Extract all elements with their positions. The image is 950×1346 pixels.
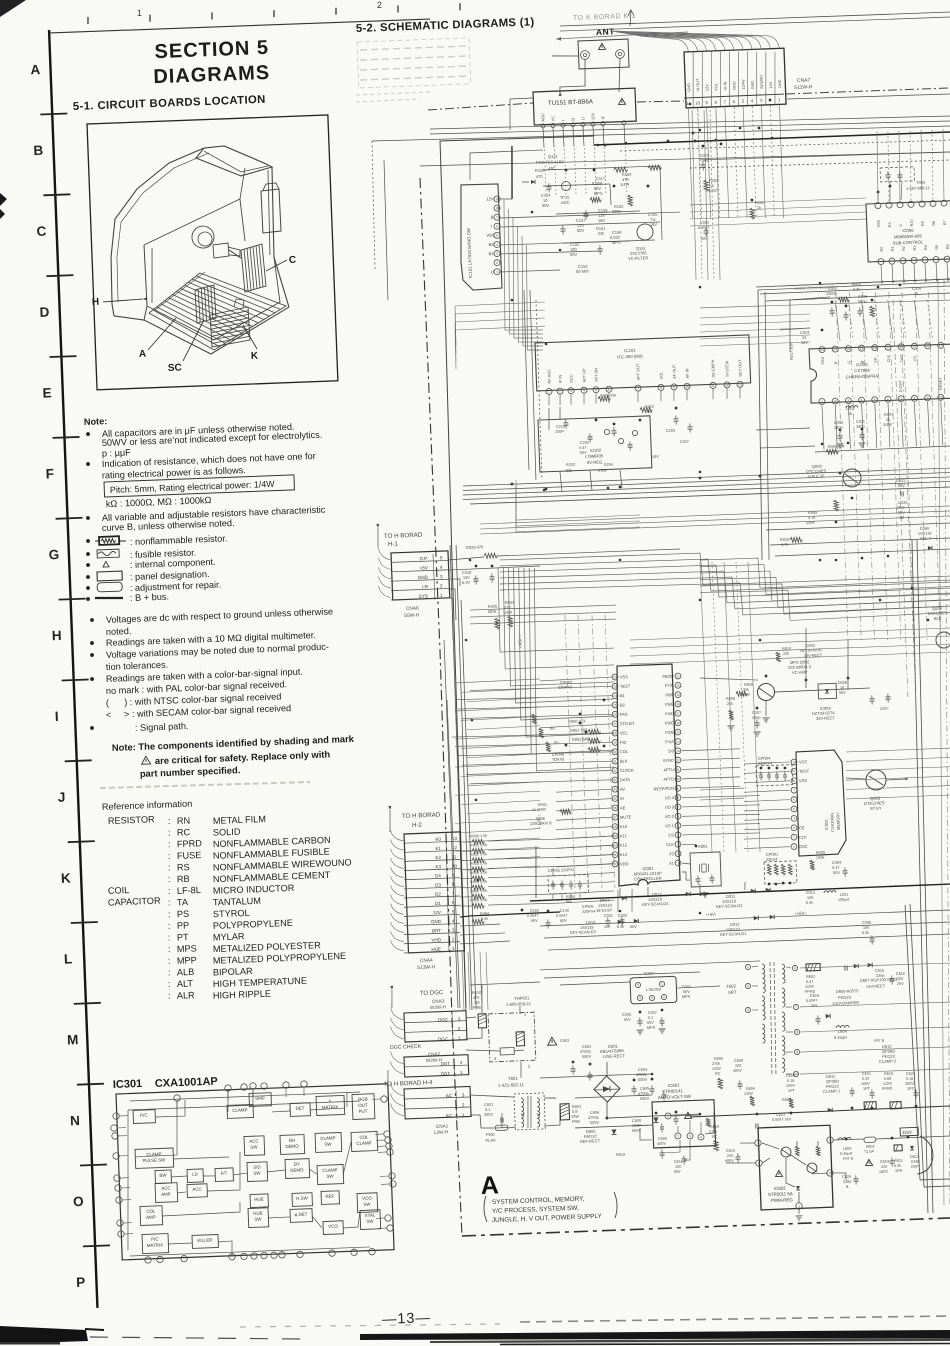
svg-text:PS: PS xyxy=(177,909,190,919)
svg-text:38: 38 xyxy=(613,825,617,829)
svg-text:CONTROLLER: CONTROLLER xyxy=(634,876,662,882)
svg-text:2kV: 2kV xyxy=(811,1004,818,1008)
svg-text:R615: R615 xyxy=(884,1072,893,1076)
svg-text:330p: 330p xyxy=(843,1180,852,1184)
IC602 PWM regulator xyxy=(754,1125,836,1221)
svg-text:L605: L605 xyxy=(843,1147,852,1151)
tv board SC (hatched) xyxy=(195,285,216,323)
svg-text:R9: R9 xyxy=(921,221,925,226)
svg-text:noted.: noted. xyxy=(106,626,132,637)
svg-text:are critical for safety. Rep: are critical for safety. Replace only wi… xyxy=(155,748,331,766)
TO H BORAD H-4 label xyxy=(384,1080,433,1088)
svg-text:2: 2 xyxy=(460,1060,463,1065)
svg-text:13: 13 xyxy=(738,383,742,387)
svg-text:VOL: VOL xyxy=(713,82,718,91)
svg-text:1-421-662-11: 1-421-662-11 xyxy=(498,1082,525,1088)
page left border bottom foot xyxy=(85,1328,104,1331)
svg-text:R251: R251 xyxy=(755,201,764,205)
svg-text:VC-FILTER: VC-FILTER xyxy=(628,255,649,261)
svg-text:21: 21 xyxy=(833,347,837,351)
svg-text:5: 5 xyxy=(742,99,745,104)
svg-text::: : xyxy=(168,839,171,849)
svg-text:ADL-7: ADL-7 xyxy=(920,536,931,541)
svg-text:IF: IF xyxy=(600,115,605,119)
damper diode group xyxy=(806,987,898,1067)
svg-text:K0: K0 xyxy=(435,837,441,842)
svg-text::: : xyxy=(168,909,171,919)
svg-text:RN: RN xyxy=(177,816,191,826)
svg-text:RS: RS xyxy=(177,862,190,872)
reference information table xyxy=(105,807,357,1005)
connector CNA7 xyxy=(682,48,786,108)
svg-text:40: 40 xyxy=(613,843,617,847)
legend nonflammable resistor xyxy=(86,532,228,549)
svg-text::: : xyxy=(168,863,171,873)
extra horizontals mid right xyxy=(629,628,950,664)
svg-text:M: M xyxy=(67,1032,79,1047)
svg-text:L: L xyxy=(64,951,73,966)
svg-text:400V: 400V xyxy=(733,1069,742,1073)
svg-text:DEMO: DEMO xyxy=(285,1143,299,1149)
svg-text:P1/A: P1/A xyxy=(665,739,674,744)
svg-text:W2W-H: W2W-H xyxy=(426,1057,442,1063)
svg-text:LD: LD xyxy=(192,1172,198,1177)
svg-text:K12: K12 xyxy=(620,842,628,847)
svg-text:RESET: RESET xyxy=(938,377,942,390)
svg-text:PULSE SW: PULSE SW xyxy=(142,1157,166,1163)
IC002 pin wires xyxy=(699,762,793,850)
svg-text:15: 15 xyxy=(912,344,916,348)
svg-text:DGC: DGC xyxy=(438,1017,448,1022)
board border left edge xyxy=(437,230,473,1008)
svg-text:FRT B: FRT B xyxy=(843,1157,854,1161)
svg-text:R004: R004 xyxy=(566,895,575,899)
svg-text:6: 6 xyxy=(608,387,610,391)
svg-text:Reference information: Reference information xyxy=(102,799,193,812)
svg-text:KEY-SCAN-D2: KEY-SCAN-D2 xyxy=(716,903,743,909)
svg-text:1PT: 1PT xyxy=(788,1089,796,1093)
svg-text:BLK: BLK xyxy=(620,758,628,763)
svg-text:L604: L604 xyxy=(838,1029,848,1034)
tuner area wires xyxy=(542,166,662,245)
svg-text:9: 9 xyxy=(705,100,708,105)
svg-text:D1: D1 xyxy=(435,901,441,906)
svg-text:I: I xyxy=(55,709,59,724)
svg-text:H: H xyxy=(51,628,61,643)
svg-text:ANT: ANT xyxy=(596,26,616,37)
svg-text:5: 5 xyxy=(637,983,639,987)
bus IC202 to mid xyxy=(514,475,640,532)
svg-text:22k: 22k xyxy=(646,410,652,414)
svg-text:K: K xyxy=(251,351,259,362)
svg-text:R0: R0 xyxy=(554,741,559,745)
scan artifact bottom black band xyxy=(90,1330,950,1345)
components above IC005 xyxy=(786,279,924,360)
svg-text:MPS: MPS xyxy=(612,240,621,245)
svg-text:CE: CE xyxy=(799,825,805,830)
vertical dash-dot bus right xyxy=(835,289,942,644)
svg-text:100: 100 xyxy=(675,1165,681,1169)
safety note line 2 xyxy=(141,748,330,766)
svg-text:R619: R619 xyxy=(616,1153,625,1157)
svg-text:AE: AE xyxy=(620,805,626,810)
svg-text:27: 27 xyxy=(613,722,617,726)
svg-text:ALT: ALT xyxy=(177,978,194,989)
svg-text:CX7958: CX7958 xyxy=(854,368,870,374)
svg-text:400V: 400V xyxy=(725,1159,734,1163)
svg-text:SUB-CONTROL: SUB-CONTROL xyxy=(893,239,924,245)
svg-text:R1: R1 xyxy=(891,246,895,251)
svg-text:500V: 500V xyxy=(582,1054,592,1059)
svg-text:1: 1 xyxy=(460,1070,463,1075)
svg-text:C610: C610 xyxy=(726,1149,735,1153)
svg-text:RESISTOR: RESISTOR xyxy=(108,814,156,826)
svg-text:25V: 25V xyxy=(897,982,904,986)
svg-text:17: 17 xyxy=(676,712,680,716)
svg-text:34: 34 xyxy=(613,787,617,791)
svg-text:R10: R10 xyxy=(910,219,914,226)
svg-text:DIAGRAMS: DIAGRAMS xyxy=(153,62,271,88)
svg-text:: nonflammable resistor.: : nonflammable resistor. xyxy=(130,533,228,547)
svg-text:28: 28 xyxy=(613,731,617,735)
svg-text:220: 220 xyxy=(897,977,903,981)
Y002 resonator xyxy=(876,166,931,201)
right edge long verticals xyxy=(909,280,950,1205)
svg-text:30: 30 xyxy=(613,750,617,754)
svg-text:HUE: HUE xyxy=(254,1197,264,1202)
svg-text:1: 1 xyxy=(778,97,781,102)
svg-text:AFT UP: AFT UP xyxy=(581,368,587,382)
bus under IC006 xyxy=(756,279,950,301)
svg-text:12: 12 xyxy=(452,845,458,850)
svg-text:R: R xyxy=(834,361,838,364)
svg-text:3: 3 xyxy=(747,1008,749,1012)
svg-text:19: 19 xyxy=(676,693,680,697)
svg-text:ALB: ALB xyxy=(177,967,195,978)
svg-text:BH: BH xyxy=(289,1138,295,1143)
svg-text:0.0047: 0.0047 xyxy=(527,914,539,918)
R045 R004 xyxy=(488,600,517,630)
svg-text:7: 7 xyxy=(900,397,902,401)
svg-text:100μH: 100μH xyxy=(838,898,850,902)
svg-text:9: 9 xyxy=(793,770,795,774)
svg-text:COIL: COIL xyxy=(108,885,130,896)
svg-text:IC202: IC202 xyxy=(590,448,602,453)
svg-text:35: 35 xyxy=(613,797,617,801)
IC002 memory IC xyxy=(787,750,846,857)
svg-text:D: D xyxy=(39,304,50,319)
svg-text:VI OUT: VI OUT xyxy=(695,78,701,92)
svg-text:19: 19 xyxy=(860,346,864,350)
svg-text:1: 1 xyxy=(661,982,663,986)
svg-text:AV: AV xyxy=(620,787,626,792)
svg-text:D006: D006 xyxy=(838,681,847,685)
svg-text:BRT: BRT xyxy=(432,928,441,933)
tv board A inner line xyxy=(154,272,207,310)
svg-text:Y002: Y002 xyxy=(916,180,926,185)
svg-text:R2M: R2M xyxy=(911,1160,919,1164)
C608 C611 xyxy=(615,1136,687,1176)
board boundary bottom dash-dot xyxy=(462,1218,950,1237)
svg-text:H.SW: H.SW xyxy=(296,1195,308,1200)
svg-text:FRB: FRB xyxy=(572,1119,580,1124)
svg-text:21: 21 xyxy=(676,674,680,678)
svg-text:C619: C619 xyxy=(810,994,819,998)
transistor Q002 VC-AMP xyxy=(724,646,814,737)
svg-text:2: 2 xyxy=(758,1161,760,1165)
svg-text:CLAMP: CLAMP xyxy=(356,1140,371,1146)
svg-text:VCC: VCC xyxy=(569,374,574,383)
right dashdot verticals xyxy=(893,300,916,706)
IC301 left pins xyxy=(110,1113,124,1238)
svg-text:3: 3 xyxy=(462,1092,465,1097)
svg-text:I: I xyxy=(491,224,492,229)
legend fusible resistor xyxy=(86,546,196,561)
svg-text:15: 15 xyxy=(676,730,680,734)
svg-text:4: 4 xyxy=(639,996,641,1000)
verticals CNA4 to DGC connectors xyxy=(462,951,488,1011)
svg-text:O: O xyxy=(73,1194,84,1209)
svg-text:AF OUT: AF OUT xyxy=(671,364,677,379)
svg-text:J: J xyxy=(58,790,66,805)
svg-text:R3: R3 xyxy=(913,245,917,250)
wires above power area xyxy=(540,961,761,993)
svg-text:R210: R210 xyxy=(645,405,654,409)
board border top-left corner xyxy=(440,135,598,230)
svg-text:F601: F601 xyxy=(486,1132,496,1137)
svg-text:1/4W: 1/4W xyxy=(806,520,816,525)
svg-text:0.22: 0.22 xyxy=(862,1077,870,1081)
svg-text:GND: GND xyxy=(431,919,442,924)
svg-text:2: 2 xyxy=(496,261,498,265)
svg-text:R041: R041 xyxy=(538,803,547,807)
svg-text:7: 7 xyxy=(677,805,679,809)
wires around CP005 xyxy=(534,842,633,915)
svg-text:K11: K11 xyxy=(620,833,628,838)
svg-text:16V: 16V xyxy=(598,218,606,223)
svg-text:R006 22k: R006 22k xyxy=(828,443,845,449)
svg-text:39: 39 xyxy=(613,834,617,838)
svg-text:LF-8L: LF-8L xyxy=(177,885,201,896)
TO H BORAD H-2 label xyxy=(402,811,442,829)
CNA6 area components xyxy=(446,537,683,640)
svg-text:R030 1.0k: R030 1.0k xyxy=(470,834,488,839)
svg-text:K3: K3 xyxy=(435,864,441,869)
svg-text:CLAMP-2: CLAMP-2 xyxy=(879,1058,897,1064)
svg-text:T602: T602 xyxy=(726,984,737,989)
svg-text:C608: C608 xyxy=(658,1137,667,1141)
IC001 left components xyxy=(525,678,611,826)
tv board K connector xyxy=(234,299,245,309)
secondary output parts xyxy=(838,1127,934,1189)
svg-text:16: 16 xyxy=(899,345,903,349)
IC201 lower components xyxy=(548,387,743,474)
svg-text:2: 2 xyxy=(663,995,665,999)
svg-text:3: 3 xyxy=(757,1141,759,1145)
svg-text:D613: D613 xyxy=(910,1155,919,1159)
IC L78L05 regulator xyxy=(630,969,692,1004)
IC001 system control microprocessor xyxy=(605,664,689,887)
svg-text:TO H BORAD: TO H BORAD xyxy=(384,532,423,540)
svg-text:GND: GND xyxy=(731,81,736,90)
svg-text:OUT: OUT xyxy=(358,1103,368,1108)
note bullet 1 xyxy=(86,422,295,440)
horizontals left of IC005 xyxy=(699,314,811,346)
svg-text:10: 10 xyxy=(792,760,796,764)
svg-text:1: 1 xyxy=(548,390,550,394)
svg-text:AFT OUT: AFT OUT xyxy=(635,363,641,380)
svg-text:12V: 12V xyxy=(704,84,709,92)
svg-text:50V: 50V xyxy=(624,1018,631,1022)
svg-text:part number specified.: part number specified. xyxy=(140,764,241,779)
svg-text:‹+5V›: ‹+5V› xyxy=(706,912,717,917)
svg-text:P7/G: P7/G xyxy=(665,683,674,688)
svg-text:C620: C620 xyxy=(786,1074,795,1078)
svg-text:IC601: IC601 xyxy=(668,1083,680,1088)
svg-text:C: C xyxy=(36,224,47,239)
svg-text:GND: GND xyxy=(777,79,782,88)
svg-text:6.3V: 6.3V xyxy=(462,580,471,585)
resistor R601 xyxy=(560,1103,582,1125)
power section wires xyxy=(539,1056,700,1122)
svg-text:R032 1.0k: R032 1.0k xyxy=(470,852,488,857)
svg-text:C162: C162 xyxy=(530,909,539,913)
svg-text:COL: COL xyxy=(620,749,629,754)
circuit boards location figure frame xyxy=(87,115,338,390)
svg-text:FRT B: FRT B xyxy=(874,1039,885,1043)
svg-text:10: 10 xyxy=(695,100,701,105)
svg-text:: Signal path.: : Signal path. xyxy=(135,721,189,733)
T602 secondary rails xyxy=(796,962,950,1074)
nested corner bus mid right xyxy=(699,282,950,562)
svg-text:1M: 1M xyxy=(899,515,905,520)
svg-text:FUSE: FUSE xyxy=(177,850,202,861)
power transformer T601 xyxy=(498,1075,546,1131)
svg-text:CNA7: CNA7 xyxy=(797,78,811,85)
top edge double lines xyxy=(560,11,950,31)
tuner area discrete components xyxy=(521,142,666,276)
svg-text:R4: R4 xyxy=(924,245,928,250)
svg-text:D003: D003 xyxy=(806,644,815,648)
grid reference letters A-P xyxy=(30,62,88,1290)
D607 rectifier group xyxy=(804,960,906,994)
svg-text:16: 16 xyxy=(676,721,680,725)
tuner top wire xyxy=(509,98,534,130)
svg-text:RC: RC xyxy=(712,1135,718,1139)
svg-text:20: 20 xyxy=(846,347,850,351)
svg-text:HUE: HUE xyxy=(431,946,441,951)
svg-text:VSS: VSS xyxy=(486,233,495,238)
svg-text:CNA6: CNA6 xyxy=(406,605,419,611)
svg-text:LINE-RECT: LINE-RECT xyxy=(603,1053,626,1059)
svg-text:R7: R7 xyxy=(943,220,947,225)
svg-text:X001: X001 xyxy=(698,844,709,849)
svg-text:GND: GND xyxy=(686,83,691,92)
svg-text:50V: 50V xyxy=(531,919,538,923)
svg-text:2: 2 xyxy=(793,835,795,839)
page number -13- xyxy=(382,1310,432,1328)
svg-text:2: 2 xyxy=(377,0,382,10)
extra mid bus lines xyxy=(480,506,950,534)
svg-text:2: 2 xyxy=(559,389,561,393)
CNA4 to IC001 wires xyxy=(558,836,617,903)
mid bus A xyxy=(463,468,950,506)
svg-text:K2: K2 xyxy=(435,855,441,860)
svg-text:RC: RC xyxy=(177,827,191,838)
switching transformer T602 xyxy=(725,961,802,1079)
svg-text:R602: R602 xyxy=(806,975,815,979)
svg-text:3: 3 xyxy=(847,399,849,403)
svg-text:4: 4 xyxy=(829,1138,831,1142)
svg-text:KEY-SCAN-D3: KEY-SCAN-D3 xyxy=(570,929,596,935)
svg-text:B: B xyxy=(860,360,864,363)
svg-text:500V: 500V xyxy=(638,1077,648,1082)
note bullet 2 xyxy=(86,451,316,470)
svg-text:DE-EMPH: DE-EMPH xyxy=(710,359,716,377)
svg-text::: : xyxy=(168,816,171,826)
legend panel designation xyxy=(86,568,210,584)
svg-text:K1: K1 xyxy=(435,846,441,851)
svg-text:U: U xyxy=(580,117,585,120)
svg-text:22kX4: 22kX4 xyxy=(766,857,778,862)
scan artifact bottom dotted streak xyxy=(240,1316,948,1327)
svg-text:3: 3 xyxy=(496,252,498,256)
staircase bus right xyxy=(699,551,950,624)
svg-text:9: 9 xyxy=(496,197,498,201)
svg-text:BIPOLAR: BIPOLAR xyxy=(213,966,254,978)
note bullet voltages xyxy=(90,606,333,625)
svg-text:3: 3 xyxy=(452,928,455,933)
svg-text:9V-REG: 9V-REG xyxy=(587,459,603,465)
chassis dash-dot tuner to CNA7 xyxy=(637,100,684,103)
svg-text:32: 32 xyxy=(613,769,617,773)
wires IC202 to bus xyxy=(560,470,622,492)
svg-text:C: C xyxy=(289,255,297,266)
svg-text:1PT: 1PT xyxy=(907,1087,915,1091)
svg-text:C051: C051 xyxy=(700,221,709,225)
svg-text:B: B xyxy=(491,215,494,220)
C623 xyxy=(755,1112,792,1128)
svg-text:PP: PP xyxy=(177,920,190,930)
svg-text:C624: C624 xyxy=(880,1160,889,1164)
svg-text:1-567-886-11: 1-567-886-11 xyxy=(906,185,931,191)
svg-text:TEST: TEST xyxy=(799,768,810,773)
svg-text:R6: R6 xyxy=(946,244,950,249)
svg-text:CLK: CLK xyxy=(666,842,674,847)
svg-text:D.P.: D.P. xyxy=(420,556,429,561)
svg-text:33V-RECT: 33V-RECT xyxy=(816,715,836,721)
svg-text:VOL: VOL xyxy=(658,371,663,380)
CNA6 label xyxy=(404,605,420,619)
svg-text:R603: R603 xyxy=(782,1098,791,1102)
crystal X001 xyxy=(681,843,722,898)
svg-text:2: 2 xyxy=(667,1114,669,1118)
svg-text:R017 100: R017 100 xyxy=(788,342,794,360)
svg-text:CHARA-DISPRA: CHARA-DISPRA xyxy=(846,373,879,379)
svg-text:8: 8 xyxy=(677,796,679,800)
svg-text:0.0047: 0.0047 xyxy=(698,226,710,230)
svg-text:6: 6 xyxy=(677,814,679,818)
svg-text:4: 4 xyxy=(793,817,795,821)
svg-text:SW: SW xyxy=(253,1171,261,1176)
svg-text:1: 1 xyxy=(677,1134,679,1138)
svg-text:M58655W-60S: M58655W-60S xyxy=(894,233,922,239)
svg-text:37: 37 xyxy=(613,815,617,819)
svg-text:+5V: +5V xyxy=(420,565,429,570)
tv board C (hatched) xyxy=(241,244,266,292)
svg-text:0.47: 0.47 xyxy=(806,980,814,984)
svg-text:560k: 560k xyxy=(488,609,497,614)
